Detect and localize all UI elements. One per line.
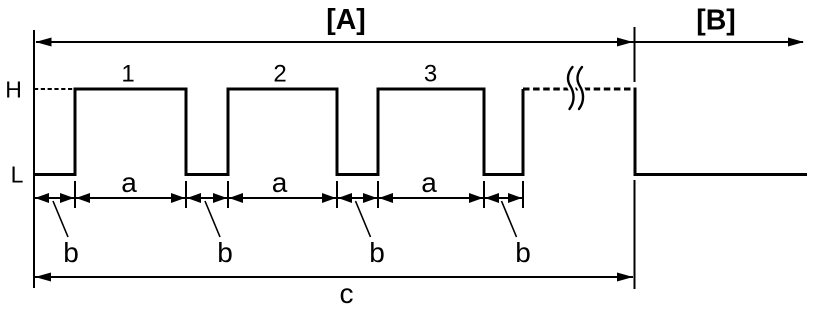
dimension b3 arrow (338, 193, 377, 203)
svg-text:b: b (515, 237, 531, 268)
dimension b4 arrow (485, 193, 522, 203)
dimension extension tick at x=484 (483, 181, 485, 208)
dimension a1 arrow (76, 193, 185, 203)
svg-text:[A]: [A] (326, 4, 366, 36)
arrowhead right of [B] (788, 38, 804, 47)
svg-text:b: b (217, 237, 233, 268)
svg-text:2: 2 (273, 61, 286, 88)
svg-text:b: b (369, 237, 385, 268)
svg-text:1: 1 (121, 61, 134, 88)
boundary tick upper (between A and B) (634, 27, 636, 82)
svg-text:L: L (11, 162, 24, 188)
dimension b1 arrow (axis to first rising edge) (35, 193, 74, 203)
arrowhead left of c (35, 273, 51, 282)
arrowhead right of [A] (617, 38, 633, 47)
dimension extension tick at x=228 (227, 181, 229, 208)
break squiggle white halo (568, 67, 583, 109)
svg-text:c: c (340, 278, 354, 309)
arrowhead left of [A] (36, 38, 52, 47)
arrowhead right of c (617, 273, 633, 282)
dimension extension tick at x=186 (185, 181, 187, 208)
svg-text:H: H (5, 77, 22, 103)
dimension c arrow shaft (35, 276, 633, 278)
dashed top of pulse 4 (523, 88, 635, 91)
leader line b3 (356, 201, 371, 237)
break squiggle curves (568, 67, 583, 109)
dimension b2 arrow (187, 193, 227, 203)
dashed H reference line left of pulse 1 (34, 88, 75, 90)
boundary tick lower (down to c dimension) (634, 180, 636, 289)
svg-text:b: b (63, 237, 79, 268)
svg-text:a: a (421, 167, 437, 198)
svg-text:a: a (121, 167, 137, 198)
svg-text:[B]: [B] (696, 5, 736, 37)
leader line b2 (205, 201, 220, 237)
svg-text:3: 3 (424, 61, 437, 88)
leader line b4 (502, 201, 517, 237)
dimension extension tick at x=523 (522, 181, 524, 208)
dimension a3 arrow (379, 193, 483, 203)
svg-text:a: a (272, 167, 288, 198)
waveform falling edge of pulse 4 and final L segment (635, 88, 807, 175)
top arrow shaft [A]/[B] (36, 41, 803, 43)
leader line b1 (53, 201, 68, 237)
dimension extension tick at x=378 (377, 181, 379, 208)
dimension extension tick at x=337 (336, 181, 338, 208)
dimension extension tick at x=75 (74, 181, 76, 208)
axis (left vertical reference line) (33, 30, 35, 288)
waveform solid trace pulses 1-3 and rising edge of pulse 4 (33, 89, 523, 175)
dimension a2 arrow (229, 193, 336, 203)
